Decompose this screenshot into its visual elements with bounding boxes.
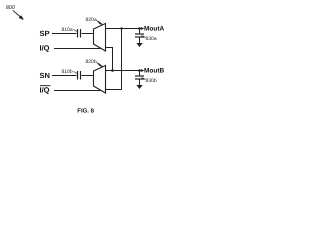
wire mixer 820a lower output down to MoutB line: [106, 48, 113, 71]
mixer 820b: [94, 66, 106, 94]
svg-text:FIG. 8: FIG. 8: [77, 107, 94, 114]
node I/Q-bar: [40, 86, 51, 95]
label 830b: [142, 78, 157, 85]
label 810b: [62, 69, 78, 75]
junction dot at 139,28: [138, 27, 141, 30]
label 830a: [142, 36, 157, 43]
node MoutA with arrow: [141, 26, 165, 33]
capacitor 810b: [78, 71, 81, 80]
svg-text:I/Q: I/Q: [40, 86, 50, 95]
svg-text:MoutB: MoutB: [144, 68, 165, 75]
capacitor 810a: [78, 29, 81, 38]
svg-text:800: 800: [6, 5, 16, 11]
label 810a: [62, 27, 78, 33]
mixer 820a: [94, 24, 106, 52]
svg-text:SN: SN: [40, 71, 50, 80]
junction dot at 112,70: [111, 69, 114, 72]
svg-text:820a: 820a: [86, 17, 97, 23]
wire SN to capacitor: [52, 75, 77, 77]
svg-text:I/Q: I/Q: [40, 44, 50, 53]
junction dot at 139,70: [138, 69, 141, 72]
capacitor 830b: [135, 71, 144, 86]
svg-text:830b: 830b: [146, 78, 157, 84]
svg-text:820b: 820b: [86, 59, 97, 65]
wire capacitor to mixer 820b: [82, 75, 94, 77]
svg-text:810a: 810a: [62, 27, 73, 33]
ground below 830b: [136, 85, 142, 89]
svg-text:830a: 830a: [146, 36, 157, 42]
label 820a with arrow: [86, 17, 102, 24]
junction dot at 121,28: [120, 27, 122, 29]
wire I/Q to mixer 820a: [54, 48, 101, 50]
wire I/Q-bar to mixer 820b: [54, 90, 101, 92]
svg-text:810b: 810b: [62, 69, 73, 75]
label 800 with leader arrow: [6, 5, 23, 20]
svg-text:SP: SP: [40, 29, 50, 38]
capacitor 830a: [135, 29, 144, 44]
ground below 830a: [136, 43, 142, 47]
wire mixer 820b lower output up to MoutA line: [106, 29, 122, 90]
wire SP to capacitor: [52, 33, 77, 35]
wire mixer 820b upper output to MoutB: [106, 70, 144, 72]
wire mixer 820a upper output to MoutA: [106, 28, 144, 30]
wire capacitor to mixer 820a: [82, 33, 94, 35]
node MoutB with arrow: [141, 68, 165, 75]
svg-text:MoutA: MoutA: [144, 26, 165, 33]
label 820b with arrow: [86, 59, 102, 66]
